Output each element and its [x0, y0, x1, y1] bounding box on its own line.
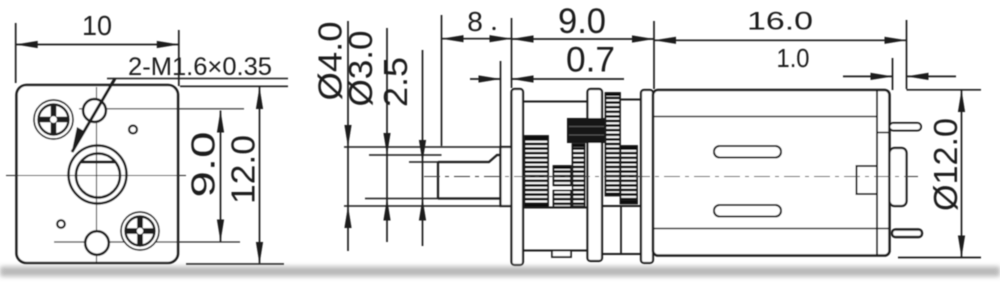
gearbox front plate: [512, 89, 524, 265]
svg-text:0.7: 0.7: [566, 41, 615, 80]
screw top-left: [34, 100, 73, 139]
svg-text:12.0: 12.0: [225, 135, 262, 204]
gear A: [525, 136, 549, 207]
dim 9.0 (left view): [220, 111, 222, 242]
case top lines: [523, 101, 588, 103]
gear D: [606, 93, 621, 196]
brush base line: [877, 132, 890, 134]
terminal top: [890, 123, 922, 131]
D-flat chord: [81, 161, 116, 164]
dim Ø12.0: [907, 89, 982, 91]
vent slot top: [714, 146, 781, 158]
vertical centerline: [96, 87, 98, 262]
svg-text:8: 8: [467, 6, 483, 37]
rear notch: [857, 166, 878, 194]
dim 2.5: [422, 50, 424, 246]
big center hole inner: [76, 154, 120, 198]
svg-text:9.0: 9.0: [558, 2, 606, 41]
dim 10: extension lines: [15, 23, 17, 83]
scan artifact band: [0, 267, 1000, 277]
vent slot bottom: [714, 205, 781, 217]
svg-text:16.0: 16.0: [747, 8, 813, 36]
top tapped hole: [83, 99, 106, 122]
dim 1.0: [843, 75, 893, 77]
can seam lines: [654, 116, 877, 118]
leader 2-M1.6x0.35: [107, 78, 288, 80]
svg-text:10: 10: [82, 10, 112, 41]
motor front plate: [641, 90, 653, 263]
extension lines top dims: [441, 15, 443, 146]
gear B: [554, 166, 572, 207]
dim 10 line: [16, 44, 179, 46]
motor can: [653, 90, 890, 256]
svg-text:Ø3.0: Ø3.0: [342, 30, 379, 106]
dim 9.0 (top): [512, 38, 655, 40]
svg-text:2-M1.6×0.35: 2-M1.6×0.35: [128, 53, 272, 81]
dim 0.7: [470, 78, 501, 80]
top hole centerline / 9.0 top extension: [79, 108, 244, 110]
svg-text:2.5: 2.5: [377, 57, 414, 107]
gear E: [621, 146, 638, 204]
bottom tapped hole: [85, 231, 109, 255]
dim 16.0: [654, 39, 907, 41]
horizontal centerline big hole: [6, 175, 186, 177]
terminal bottom: [892, 230, 922, 238]
svg-text:Ø12.0: Ø12.0: [927, 118, 964, 211]
bottom hole centerline / 9.0 bottom extension: [54, 241, 240, 243]
main centerline: [424, 176, 918, 178]
big center hole outer: [69, 146, 127, 204]
small hole right: [129, 126, 137, 134]
motor pinion block: [567, 118, 607, 143]
svg-text:9.0: 9.0: [185, 132, 222, 198]
case bottom: [523, 207, 588, 209]
extension lines diameters: [344, 146, 501, 148]
middle plate: [588, 89, 603, 261]
svg-text:1.0: 1.0: [777, 43, 810, 73]
end cap bump: [890, 148, 907, 206]
dim 8: [442, 38, 512, 40]
plate bottom edge extension (12.0): [186, 263, 284, 265]
bearing boss: [501, 147, 512, 206]
gearbox face plate: [17, 85, 179, 263]
can crimp: [876, 91, 878, 255]
gear C: [573, 144, 585, 207]
plate top edge extension (12.0): [180, 85, 288, 87]
dim 12.0 (left view): [259, 87, 261, 264]
dim Ø3.0: [386, 28, 388, 242]
shaft: [438, 155, 501, 199]
screw bottom-right: [121, 212, 159, 250]
dim Ø4.0: [347, 21, 349, 251]
small hole left-bottom: [57, 220, 65, 228]
